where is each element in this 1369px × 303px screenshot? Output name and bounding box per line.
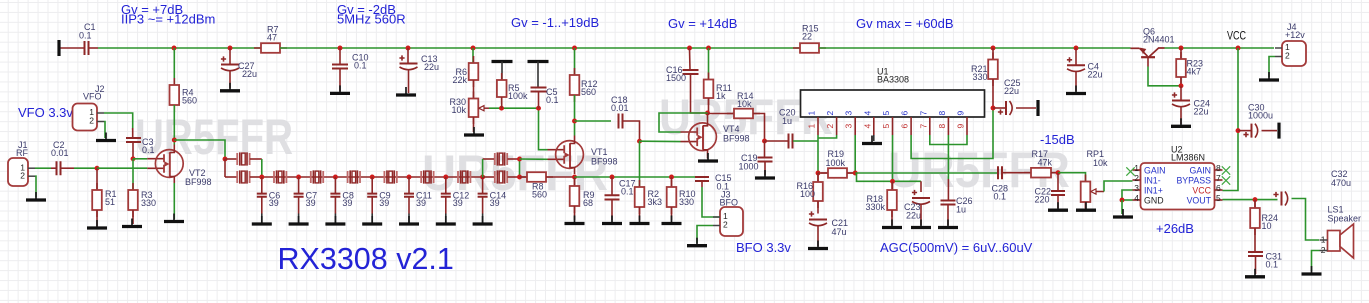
capacitor C24	[1180, 86, 1182, 100]
resistor R7	[254, 47, 287, 49]
svg-text:68: 68	[583, 198, 593, 208]
svg-text:39: 39	[490, 198, 500, 208]
svg-text:BA3308: BA3308	[877, 75, 909, 85]
terminal C30	[1277, 123, 1280, 139]
ground C14	[482, 216, 484, 223]
ground LS1	[1311, 266, 1313, 273]
node R10	[669, 175, 674, 180]
capacitor C5	[537, 62, 539, 88]
svg-text:9: 9	[956, 124, 966, 129]
svg-text:51: 51	[105, 197, 115, 207]
svg-text:VT1: VT1	[591, 147, 608, 157]
svg-text:LM386N: LM386N	[1171, 153, 1205, 163]
svg-text:3: 3	[844, 124, 854, 129]
capacitor C8	[334, 177, 336, 194]
capacitor C3	[132, 128, 134, 138]
svg-text:10k: 10k	[1093, 158, 1108, 168]
resistor R19	[818, 172, 828, 174]
pin 6 U1	[910, 117, 912, 135]
capacitor C31	[1248, 252, 1263, 256]
ground C21	[817, 241, 819, 248]
svg-text:1000u: 1000u	[1248, 111, 1273, 121]
svg-text:VFO: VFO	[83, 92, 102, 102]
ground R3	[131, 219, 133, 226]
svg-text:+26dB: +26dB	[1156, 221, 1194, 236]
node VT2 drain	[172, 138, 177, 143]
node R19 left	[816, 171, 821, 176]
svg-text:9: 9	[956, 111, 966, 116]
wire VT4 drain	[707, 113, 709, 118]
capacitor C6	[261, 177, 263, 194]
wire VOUT	[1223, 199, 1278, 201]
svg-text:0.01: 0.01	[611, 103, 629, 113]
ground C19	[764, 170, 766, 177]
svg-text:8: 8	[937, 124, 947, 129]
transistor VT2 BF998	[147, 159, 164, 169]
svg-text:RX3308 v2.1: RX3308 v2.1	[278, 242, 454, 276]
svg-text:0.1: 0.1	[79, 31, 92, 41]
terminal C25	[1036, 100, 1039, 116]
svg-text:2: 2	[825, 111, 835, 116]
capacitor C21	[809, 219, 827, 221]
svg-text:22u: 22u	[242, 69, 257, 79]
wire RP1 wiper to U2 pin2	[1096, 191, 1104, 193]
wire LS1 pin2 ground	[1312, 251, 1320, 272]
svg-text:47u: 47u	[832, 227, 847, 237]
ground R10	[671, 216, 673, 223]
svg-text:5MHz 560R: 5MHz 560R	[337, 12, 406, 27]
capacitor C7	[298, 177, 300, 194]
node VOUT R24	[1253, 197, 1258, 202]
svg-text:VCC: VCC	[1192, 185, 1211, 195]
capacitor C10	[339, 48, 341, 65]
capacitor C16	[689, 48, 692, 70]
wire to VT4 gate2	[640, 140, 681, 142]
crystal ladder 5	[421, 171, 433, 183]
resistor R14	[708, 113, 735, 115]
capacitor C9	[371, 177, 373, 194]
svg-text:7: 7	[1216, 173, 1221, 183]
wire filter pair join	[261, 159, 263, 177]
node C9	[370, 175, 375, 180]
crystal left pair upper	[225, 158, 237, 160]
resistor R9	[574, 177, 576, 186]
wire AGC line	[855, 172, 998, 174]
svg-text:GAIN: GAIN	[1189, 165, 1211, 175]
svg-text:39: 39	[306, 198, 316, 208]
wire U1 pin1	[817, 135, 819, 173]
wire to RP1	[1058, 173, 1086, 181]
svg-text:BFO: BFO	[720, 198, 739, 208]
pin 8 U2 GAIN	[1215, 169, 1223, 171]
node VT1 source	[572, 175, 577, 180]
ground C13	[405, 87, 407, 94]
svg-text:Gv max = +60dB: Gv max = +60dB	[856, 16, 954, 31]
capacitor C22	[1057, 173, 1059, 191]
terminal C5 top	[528, 60, 549, 63]
svg-text:+12v: +12v	[1285, 30, 1305, 40]
wire VT1 source line	[575, 176, 703, 178]
ground J4	[1268, 72, 1270, 79]
ground C9	[371, 216, 373, 223]
ground R18	[891, 220, 893, 227]
node filter output top	[517, 157, 522, 162]
ground VT4	[707, 153, 709, 160]
node rail R6	[471, 46, 476, 51]
ground C11	[408, 216, 410, 223]
svg-text:10: 10	[1262, 221, 1272, 231]
node U2 gnd	[1120, 198, 1125, 203]
ground J3	[696, 238, 698, 245]
pin 7 U2 BYPASS	[1215, 179, 1223, 181]
no-connect U2 pin1	[1126, 167, 1134, 175]
crystal ladder 2	[311, 171, 323, 183]
pin 2 U1	[836, 117, 838, 135]
svg-text:GAIN: GAIN	[1144, 165, 1166, 175]
node C17	[610, 175, 615, 180]
svg-text:AGC(500mV) = 6uV..60uV: AGC(500mV) = 6uV..60uV	[880, 240, 1033, 255]
capacitor C12	[445, 177, 447, 194]
svg-text:470u: 470u	[1331, 178, 1351, 188]
capacitor C11	[408, 177, 410, 194]
svg-text:1: 1	[807, 111, 817, 116]
capacitor C4	[1075, 48, 1077, 65]
ground U2	[1122, 209, 1124, 216]
svg-text:3: 3	[844, 111, 854, 116]
pin 6 U2 VCC	[1215, 189, 1223, 191]
ground C12	[445, 216, 447, 223]
svg-text:560: 560	[581, 87, 596, 97]
svg-text:330: 330	[141, 198, 156, 208]
ground R9	[574, 216, 576, 223]
node VT1 drain	[572, 119, 577, 124]
wire rail R15 to Q6	[819, 47, 1131, 49]
svg-text:GND: GND	[1144, 195, 1164, 205]
crystal ladder 6	[458, 171, 470, 183]
no-connect U2 pin8	[1222, 166, 1230, 174]
svg-text:RF: RF	[16, 148, 28, 158]
transistor VT1 BF998	[548, 150, 565, 160]
resistor R11	[708, 48, 710, 80]
wire U1 pin2	[818, 135, 837, 138]
svg-text:VOUT: VOUT	[1187, 195, 1212, 205]
node rail R21	[991, 46, 996, 51]
node pin5 R18	[890, 179, 895, 184]
node C5	[536, 106, 541, 111]
svg-text:BF998: BF998	[185, 177, 212, 187]
pin 4 U2 GND	[1133, 199, 1141, 201]
wire U1 pin6	[911, 108, 993, 159]
svg-text:100k: 100k	[826, 158, 846, 168]
svg-text:0.1: 0.1	[142, 145, 155, 155]
svg-text:47k: 47k	[1038, 158, 1053, 168]
resistor R6	[472, 48, 474, 63]
svg-text:5: 5	[881, 111, 891, 116]
wire filter left pair vertical	[224, 159, 226, 177]
resistor R15	[793, 47, 826, 49]
node R5	[499, 106, 504, 111]
crystal ladder 4	[384, 171, 396, 183]
svg-text:BF998: BF998	[591, 157, 618, 167]
crystal ladder 1	[274, 171, 286, 183]
svg-text:IIP3 ~= +12dBm: IIP3 ~= +12dBm	[121, 12, 215, 27]
node rail R12	[572, 46, 577, 51]
svg-text:2: 2	[20, 170, 25, 180]
ground C27	[229, 83, 231, 90]
pin 2 U2 IN1-	[1133, 179, 1141, 181]
potentiometer R30	[473, 80, 475, 99]
node C12	[443, 175, 448, 180]
no-connect U2 pin7	[1222, 176, 1230, 184]
svg-text:7: 7	[918, 124, 928, 129]
wire VCC down	[1223, 48, 1239, 191]
pin 1 U1	[817, 117, 819, 135]
svg-text:4k7: 4k7	[1187, 66, 1202, 76]
resistor R1	[96, 168, 98, 190]
node rail C16	[687, 46, 692, 51]
resistor R24	[1254, 200, 1256, 208]
ground C8	[334, 216, 336, 223]
ground R2	[639, 216, 641, 223]
wire Q6 base	[1147, 57, 1149, 66]
ground C10	[339, 85, 341, 92]
wire AGC to R18 branch	[857, 173, 922, 181]
svg-text:22u: 22u	[1194, 107, 1209, 117]
resistor R16	[817, 173, 819, 182]
svg-text:0.1: 0.1	[1266, 260, 1279, 270]
node C14	[480, 175, 485, 180]
svg-text:BFO 3.3v: BFO 3.3v	[736, 240, 791, 255]
capacitor C26	[947, 179, 949, 201]
capacitor C27	[229, 48, 231, 65]
svg-text:VCC: VCC	[1227, 29, 1246, 43]
svg-text:39: 39	[379, 198, 389, 208]
ground C4	[1075, 86, 1077, 93]
pin 7 U1	[929, 117, 931, 135]
node C6	[259, 175, 264, 180]
svg-text:5: 5	[1216, 193, 1221, 203]
node RF input	[95, 166, 100, 171]
wire J1 pin2 to ground	[35, 176, 36, 197]
pin 4 U1	[873, 117, 875, 135]
svg-text:4: 4	[1134, 193, 1139, 203]
svg-text:560: 560	[532, 189, 547, 199]
svg-text:47: 47	[267, 32, 277, 42]
terminal R5 top	[492, 60, 513, 63]
wire U1 pin4 ground	[873, 135, 875, 141]
wire U1 pin7 pin9	[930, 135, 967, 145]
svg-text:Gv = +14dB: Gv = +14dB	[668, 16, 737, 31]
svg-text:22u: 22u	[1088, 70, 1103, 80]
wire filter to VT1 gate2	[520, 158, 548, 160]
wire Q6 collector to VCC	[1165, 47, 1275, 49]
resistor R17	[1024, 172, 1058, 174]
wire J4 pin2 ground	[1269, 57, 1275, 78]
ground RP1	[1085, 202, 1087, 209]
wire VT2 drain to filter	[174, 140, 225, 159]
resistor R10	[671, 177, 673, 187]
node rail C10	[338, 46, 343, 51]
node rail R23	[1179, 46, 1184, 51]
pin 8 U1	[947, 117, 949, 135]
transistor VT4 BF998	[681, 132, 698, 142]
svg-text:22u: 22u	[906, 211, 921, 221]
ground J2	[105, 133, 107, 140]
svg-text:22k: 22k	[452, 75, 467, 85]
svg-text:22u: 22u	[424, 62, 439, 72]
wire U1 pin8	[947, 135, 949, 179]
svg-text:330k: 330k	[865, 202, 885, 212]
svg-text:2: 2	[89, 116, 94, 126]
node C3 R3 gate1	[131, 156, 136, 161]
ground C6	[261, 216, 263, 223]
node filter input top	[223, 157, 228, 162]
svg-text:0.1: 0.1	[546, 95, 559, 105]
svg-text:BF998: BF998	[723, 134, 750, 144]
svg-text:10k: 10k	[451, 105, 466, 115]
wire J2 pin2 to ground	[104, 122, 105, 139]
wire ladder series	[262, 176, 483, 178]
wire VT2 source to ground	[173, 183, 175, 219]
capacitor C14	[482, 177, 484, 194]
node rail C4	[1074, 46, 1079, 51]
capacitor C18	[575, 120, 612, 122]
svg-text:1u: 1u	[782, 116, 792, 126]
capacitor C13	[407, 48, 409, 64]
ground VT2	[173, 214, 175, 221]
ground C23	[920, 220, 922, 227]
node filter output bottom	[517, 175, 522, 180]
svg-text:1: 1	[807, 124, 817, 129]
crystal ladder 3	[348, 171, 360, 183]
ground U1 pin4	[871, 136, 873, 143]
svg-text:8: 8	[937, 111, 947, 116]
capacitor C17	[611, 177, 613, 195]
resistor R23	[1180, 48, 1182, 59]
node VT4 drain	[705, 111, 710, 116]
node VCC	[1236, 46, 1241, 51]
crystal right pair upper	[483, 158, 495, 160]
svg-text:0.1: 0.1	[621, 187, 634, 197]
resistor R18	[892, 181, 894, 190]
node rail R11	[706, 46, 711, 51]
svg-text:220: 220	[1035, 195, 1050, 205]
node C30	[1236, 128, 1241, 133]
resistor R4	[173, 48, 175, 85]
resistor R8	[520, 176, 528, 178]
svg-text:1000: 1000	[739, 162, 759, 172]
svg-text:22u: 22u	[1004, 86, 1019, 96]
svg-text:330: 330	[972, 72, 987, 82]
resistor R21	[992, 48, 994, 60]
wire U1 pin5	[892, 135, 894, 181]
capacitor C30	[1238, 130, 1252, 132]
capacitor C25	[993, 107, 1006, 109]
svg-text:1: 1	[1134, 163, 1139, 173]
svg-text:1u: 1u	[956, 205, 966, 215]
svg-text:1k: 1k	[716, 91, 726, 101]
svg-text:5: 5	[881, 124, 891, 129]
svg-text:39: 39	[269, 198, 279, 208]
ground R1	[96, 220, 98, 227]
svg-text:0.1: 0.1	[994, 192, 1007, 202]
wire U1 pin3	[854, 135, 856, 173]
svg-text:2: 2	[825, 124, 835, 129]
node rail C27	[228, 46, 233, 51]
svg-text:3: 3	[1134, 183, 1139, 193]
svg-text:1500: 1500	[666, 73, 686, 83]
wire VT4 source to ground	[707, 156, 709, 158]
wire J2 pin1 to C3	[104, 113, 133, 130]
svg-text:2: 2	[1285, 51, 1290, 61]
capacitor C1	[61, 47, 85, 49]
pin 5 U2 VOUT	[1215, 199, 1223, 201]
ground C7	[298, 216, 300, 223]
node rail C13	[406, 46, 411, 51]
wire R30 bias to VT1 gate1	[539, 108, 548, 150]
node C8	[333, 175, 338, 180]
svg-text:10k: 10k	[737, 99, 752, 109]
svg-text:6: 6	[1216, 183, 1221, 193]
wire U2 pin3 pin4 ground	[1122, 190, 1133, 200]
wire VT4 gate1 loop	[659, 113, 708, 132]
potentiometer RP1	[1085, 175, 1087, 210]
svg-text:IN1+: IN1+	[1144, 185, 1163, 195]
node C11	[407, 175, 412, 180]
svg-text:330: 330	[679, 197, 694, 207]
node R17 C22	[1056, 170, 1061, 175]
svg-text:39: 39	[416, 198, 426, 208]
node rail R4	[172, 46, 177, 51]
svg-text:39: 39	[342, 198, 352, 208]
svg-text:6: 6	[900, 111, 910, 116]
svg-text:4: 4	[862, 111, 872, 116]
wire R30 wiper	[484, 107, 489, 109]
svg-text:2: 2	[1134, 173, 1139, 183]
IC U1 BA3308	[801, 90, 985, 117]
svg-text:VT4: VT4	[723, 124, 740, 134]
capacitor C23	[920, 181, 922, 192]
svg-text:6: 6	[900, 124, 910, 129]
resistor R3	[132, 159, 134, 190]
svg-text:4: 4	[862, 124, 872, 129]
ground C24	[1180, 118, 1182, 125]
wire right pair vertical left	[482, 159, 484, 177]
resistor R12	[574, 48, 576, 75]
wire J3 pin2 ground	[697, 226, 713, 244]
pin 5 U1	[892, 117, 894, 135]
svg-text:Speaker: Speaker	[1328, 214, 1362, 224]
pin 3 U1	[854, 117, 856, 135]
capacitor C28	[998, 166, 1002, 179]
svg-text:UR5FFR: UR5FFR	[135, 109, 293, 165]
node R14 C19	[762, 139, 767, 144]
ground R30	[473, 127, 475, 134]
ground J1	[35, 192, 37, 199]
wire rail C1 to R7	[89, 47, 98, 49]
node Q6 base C24	[1179, 83, 1184, 88]
wire rail R7 to R15	[280, 47, 800, 49]
node R21 C25	[991, 106, 996, 111]
svg-text:VFO 3.3v: VFO 3.3v	[18, 105, 73, 120]
capacitor C19	[764, 141, 766, 158]
svg-text:22: 22	[802, 31, 812, 41]
svg-text:3k3: 3k3	[648, 197, 663, 207]
pin 3 U2 IN1+	[1133, 189, 1141, 191]
svg-text:Gv = -1..+19dB: Gv = -1..+19dB	[511, 15, 599, 30]
svg-text:0.01: 0.01	[51, 148, 69, 158]
node C7	[296, 175, 301, 180]
